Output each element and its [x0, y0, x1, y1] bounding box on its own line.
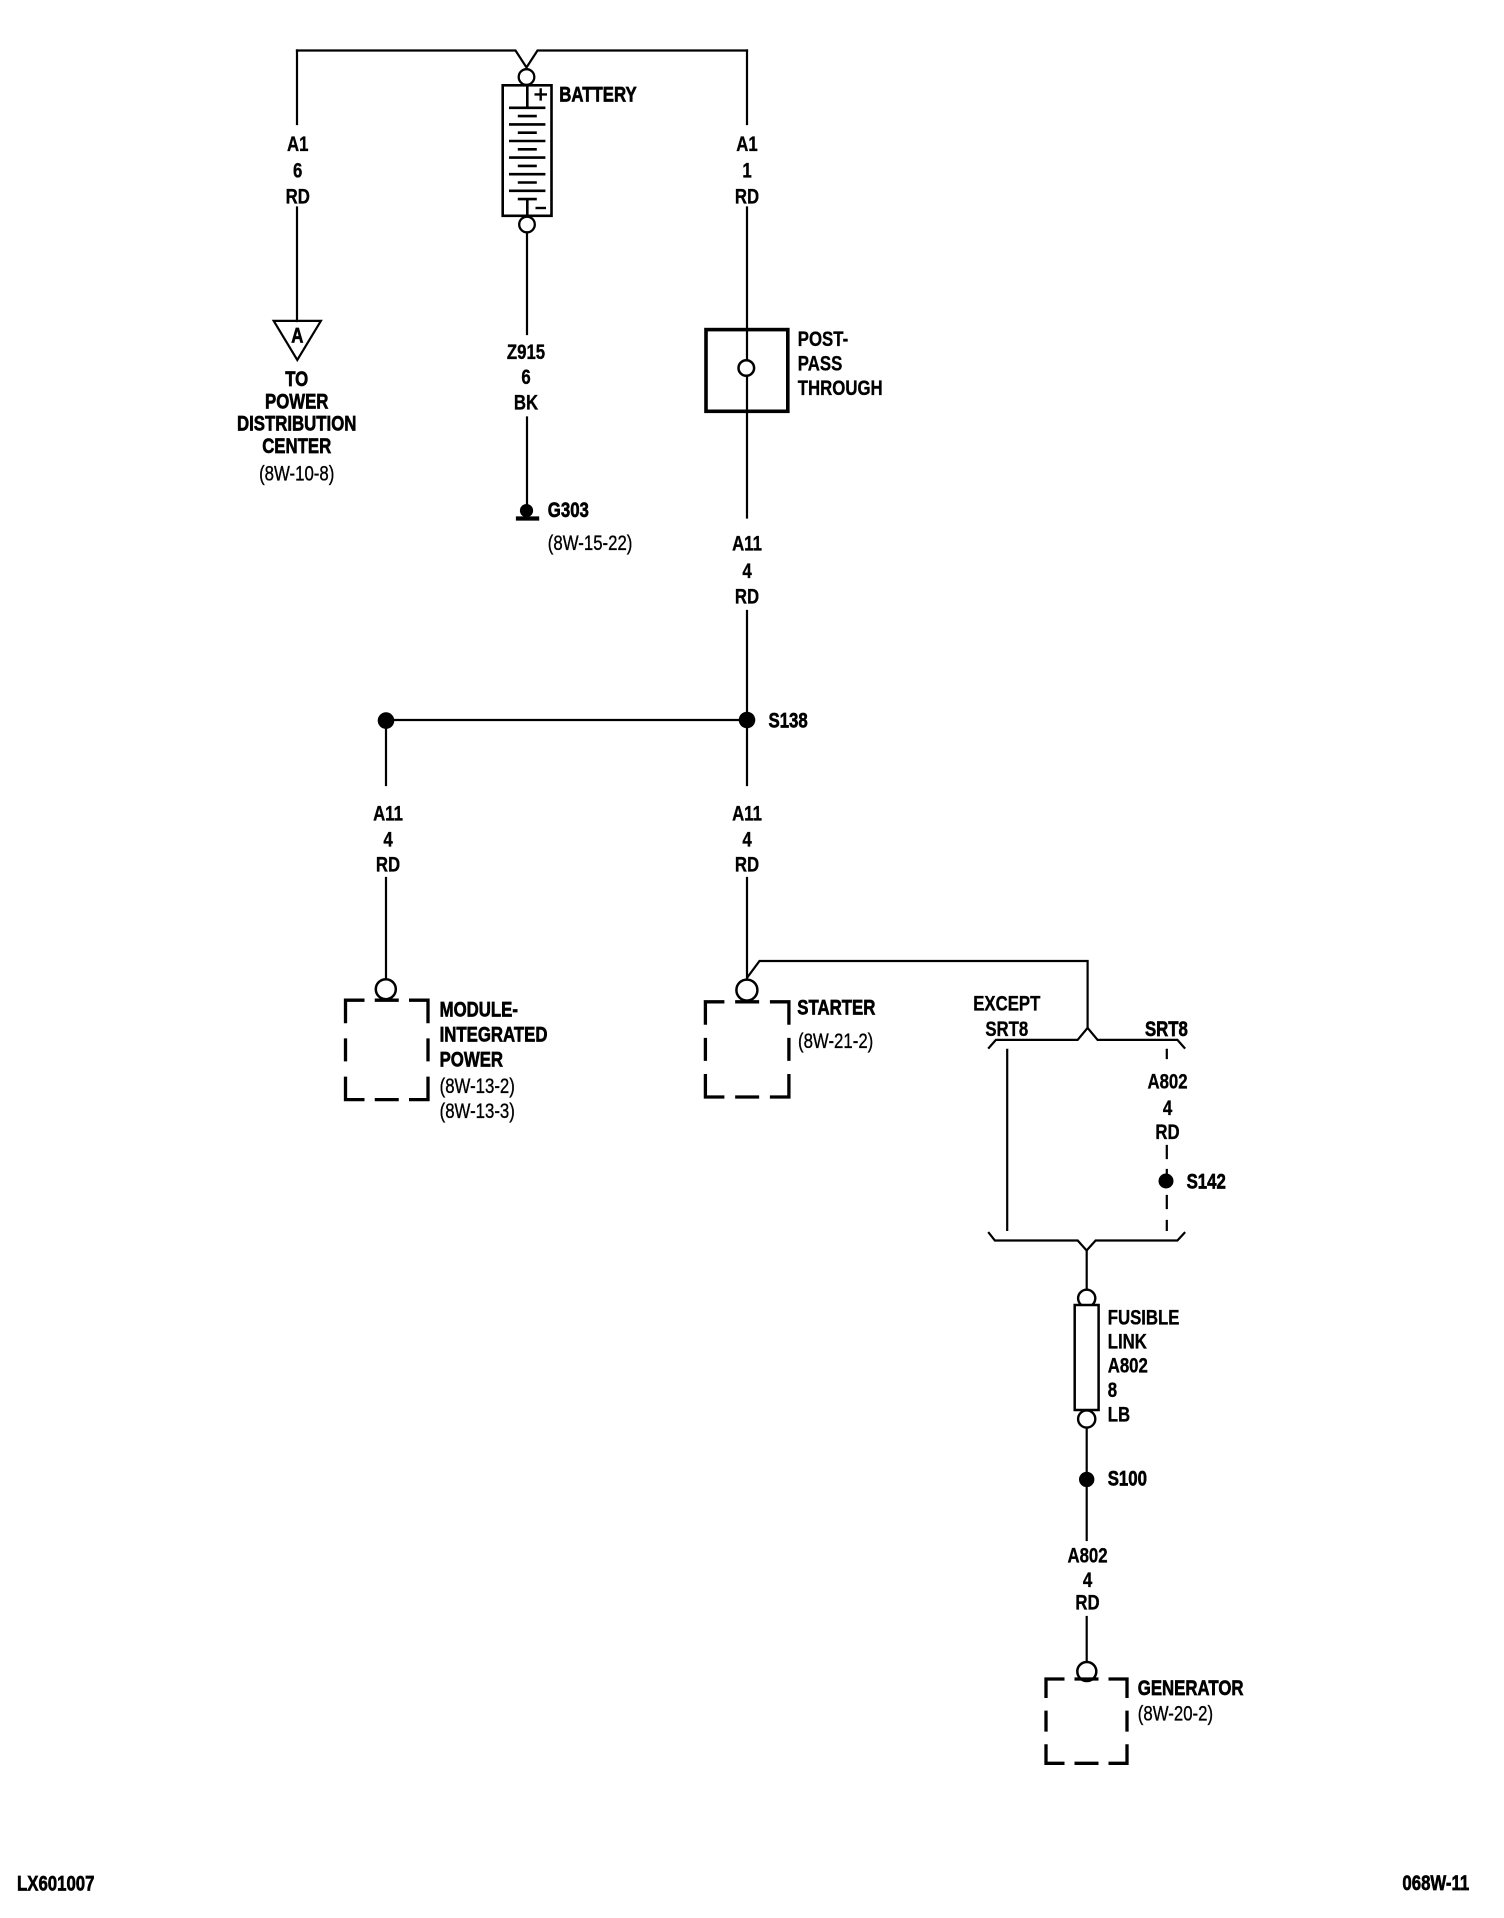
- svg-text:SRT8: SRT8: [1145, 1018, 1188, 1041]
- wire label A1 6 RD (left): [286, 133, 310, 209]
- brace bottom alternatives merge: [989, 1233, 1185, 1251]
- svg-text:A1: A1: [736, 133, 758, 156]
- post-pass through terminal: [739, 360, 755, 376]
- battery positive terminal eyelet: [519, 69, 535, 85]
- off-page connector A to power distribution center: [274, 321, 321, 360]
- fusible link bottom terminal: [1078, 1410, 1095, 1427]
- svg-text:A802: A802: [1108, 1355, 1148, 1378]
- svg-text:RD: RD: [1075, 1592, 1099, 1615]
- svg-text:4: 4: [742, 560, 752, 583]
- wire top rail battery feed: [297, 51, 747, 68]
- starter box (dashed): [705, 1002, 789, 1097]
- module-integrated power box (dashed): [346, 1000, 429, 1099]
- svg-text:A11: A11: [732, 803, 762, 826]
- svg-text:THROUGH: THROUGH: [798, 377, 883, 400]
- svg-text:A802: A802: [1147, 1071, 1187, 1094]
- svg-text:4: 4: [383, 829, 393, 852]
- svg-text:A11: A11: [373, 803, 403, 826]
- node TO POWER DISTRIBUTION CENTER: [237, 368, 356, 485]
- svg-text:INTEGRATED: INTEGRATED: [440, 1024, 548, 1047]
- battery plus sign: [535, 88, 548, 100]
- label FUSIBLE LINK A802 8 LB: [1108, 1307, 1180, 1427]
- svg-text:RD: RD: [735, 586, 759, 609]
- svg-text:4: 4: [1083, 1569, 1093, 1592]
- svg-text:6: 6: [293, 160, 302, 183]
- wire right drop through post-pass box: [746, 208, 748, 518]
- svg-text:POWER: POWER: [440, 1049, 504, 1072]
- svg-text:LX601007: LX601007: [17, 1873, 94, 1896]
- battery positive plate lead: [526, 85, 529, 108]
- svg-text:POWER: POWER: [265, 391, 329, 414]
- svg-text:(8W-20-2): (8W-20-2): [1138, 1703, 1213, 1726]
- svg-text:RD: RD: [1155, 1121, 1179, 1144]
- battery body: [503, 85, 552, 216]
- wire EXCEPT SRT8 branch: [1006, 1050, 1008, 1230]
- svg-text:S138: S138: [769, 710, 808, 733]
- svg-text:SRT8: SRT8: [985, 1018, 1028, 1041]
- splice S142: [1159, 1174, 1174, 1189]
- svg-text:LINK: LINK: [1108, 1331, 1147, 1354]
- svg-text:S142: S142: [1187, 1171, 1226, 1194]
- wire label A802 4 RD (SRT8): [1147, 1071, 1187, 1145]
- node EXCEPT SRT8: [973, 993, 1041, 1042]
- svg-text:FUSIBLE: FUSIBLE: [1108, 1307, 1180, 1330]
- wire S138 horizontal tie: [386, 719, 747, 721]
- svg-text:STARTER: STARTER: [797, 997, 875, 1020]
- svg-text:PASS: PASS: [798, 353, 842, 376]
- label MODULE-INTEGRATED POWER: [440, 999, 548, 1124]
- svg-text:LB: LB: [1108, 1404, 1130, 1427]
- wire label A11 4 RD (starter branch): [732, 803, 762, 877]
- svg-text:GENERATOR: GENERATOR: [1138, 1677, 1244, 1700]
- svg-text:BATTERY: BATTERY: [559, 84, 637, 107]
- ground G303: [520, 504, 533, 517]
- svg-text:1: 1: [742, 160, 752, 183]
- svg-text:G303: G303: [548, 499, 589, 522]
- wire left branch to module lower: [385, 878, 387, 980]
- svg-text:EXCEPT: EXCEPT: [973, 993, 1041, 1016]
- svg-text:BK: BK: [514, 392, 538, 415]
- battery cell plates: [509, 108, 545, 199]
- svg-text:(8W-10-8): (8W-10-8): [259, 463, 334, 486]
- svg-text:S100: S100: [1108, 1468, 1147, 1491]
- svg-text:TO: TO: [285, 368, 308, 391]
- svg-text:A802: A802: [1067, 1545, 1107, 1568]
- svg-text:RD: RD: [286, 186, 310, 209]
- fusible link top terminal: [1078, 1290, 1095, 1307]
- wire left drop A1 6 RD lower: [296, 208, 298, 322]
- svg-text:CENTER: CENTER: [262, 435, 331, 458]
- svg-text:RD: RD: [735, 854, 759, 877]
- svg-text:DISTRIBUTION: DISTRIBUTION: [237, 413, 356, 436]
- wire label A11 4 RD (above S138): [732, 533, 762, 609]
- post-pass through box: [706, 330, 788, 412]
- svg-text:(8W-13-2): (8W-13-2): [440, 1076, 515, 1099]
- svg-text:(8W-21-2): (8W-21-2): [798, 1031, 873, 1054]
- wire merge to fusible link: [1086, 1251, 1088, 1291]
- wire battery negative drop lower to G303: [526, 418, 528, 505]
- wire right drop A1 1 RD upper: [746, 51, 748, 125]
- label POST-PASS THROUGH: [798, 328, 883, 400]
- battery minus sign: [536, 207, 547, 209]
- module-integrated power connector terminal: [376, 979, 396, 999]
- wire battery negative drop upper: [526, 232, 528, 334]
- generator box (dashed): [1046, 1679, 1127, 1763]
- wire left branch to module upper: [385, 720, 387, 785]
- generator connector terminal: [1077, 1662, 1096, 1681]
- svg-text:(8W-13-3): (8W-13-3): [440, 1100, 515, 1123]
- wire fusible link to S100: [1086, 1428, 1088, 1472]
- wire label A802 4 RD (generator): [1067, 1545, 1107, 1615]
- starter connector terminal: [736, 980, 757, 1001]
- svg-text:A1: A1: [287, 133, 309, 156]
- battery negative terminal eyelet: [519, 217, 535, 233]
- svg-text:068W-11: 068W-11: [1402, 1873, 1469, 1896]
- svg-text:Z915: Z915: [507, 341, 546, 364]
- svg-text:(8W-15-22): (8W-15-22): [548, 532, 633, 555]
- svg-text:RD: RD: [376, 854, 400, 877]
- wire S100 to A802 label: [1086, 1487, 1088, 1540]
- junction left tie point: [378, 712, 395, 729]
- svg-text:MODULE-: MODULE-: [440, 999, 518, 1022]
- wire label A1 1 RD (right): [735, 133, 759, 209]
- svg-text:POST-: POST-: [798, 328, 848, 351]
- splice S100: [1079, 1472, 1094, 1487]
- battery negative plate lead: [526, 199, 529, 217]
- svg-text:8: 8: [1108, 1380, 1117, 1403]
- wire A802 label to generator: [1086, 1617, 1088, 1663]
- wire label Z915 6 BK: [507, 341, 546, 415]
- svg-text:4: 4: [742, 829, 752, 852]
- svg-text:A: A: [291, 325, 303, 348]
- fusible link body: [1075, 1305, 1099, 1410]
- svg-text:A11: A11: [732, 533, 762, 556]
- wire SRT8 branch dashed: [1166, 1050, 1168, 1230]
- svg-text:RD: RD: [735, 186, 759, 209]
- wire branch starter terminal to SRT8 selector: [748, 961, 1088, 1028]
- splice S138: [739, 712, 756, 729]
- svg-text:4: 4: [1163, 1097, 1173, 1120]
- wire label A11 4 RD (module branch): [373, 803, 403, 877]
- wire A11 4 RD into splice S138: [746, 611, 748, 785]
- brace top alternatives EXCEPT SRT8 / SRT8: [989, 1028, 1185, 1048]
- wire left drop A1 6 RD upper: [296, 51, 298, 125]
- wire right branch to starter: [746, 878, 748, 979]
- svg-text:6: 6: [521, 366, 530, 389]
